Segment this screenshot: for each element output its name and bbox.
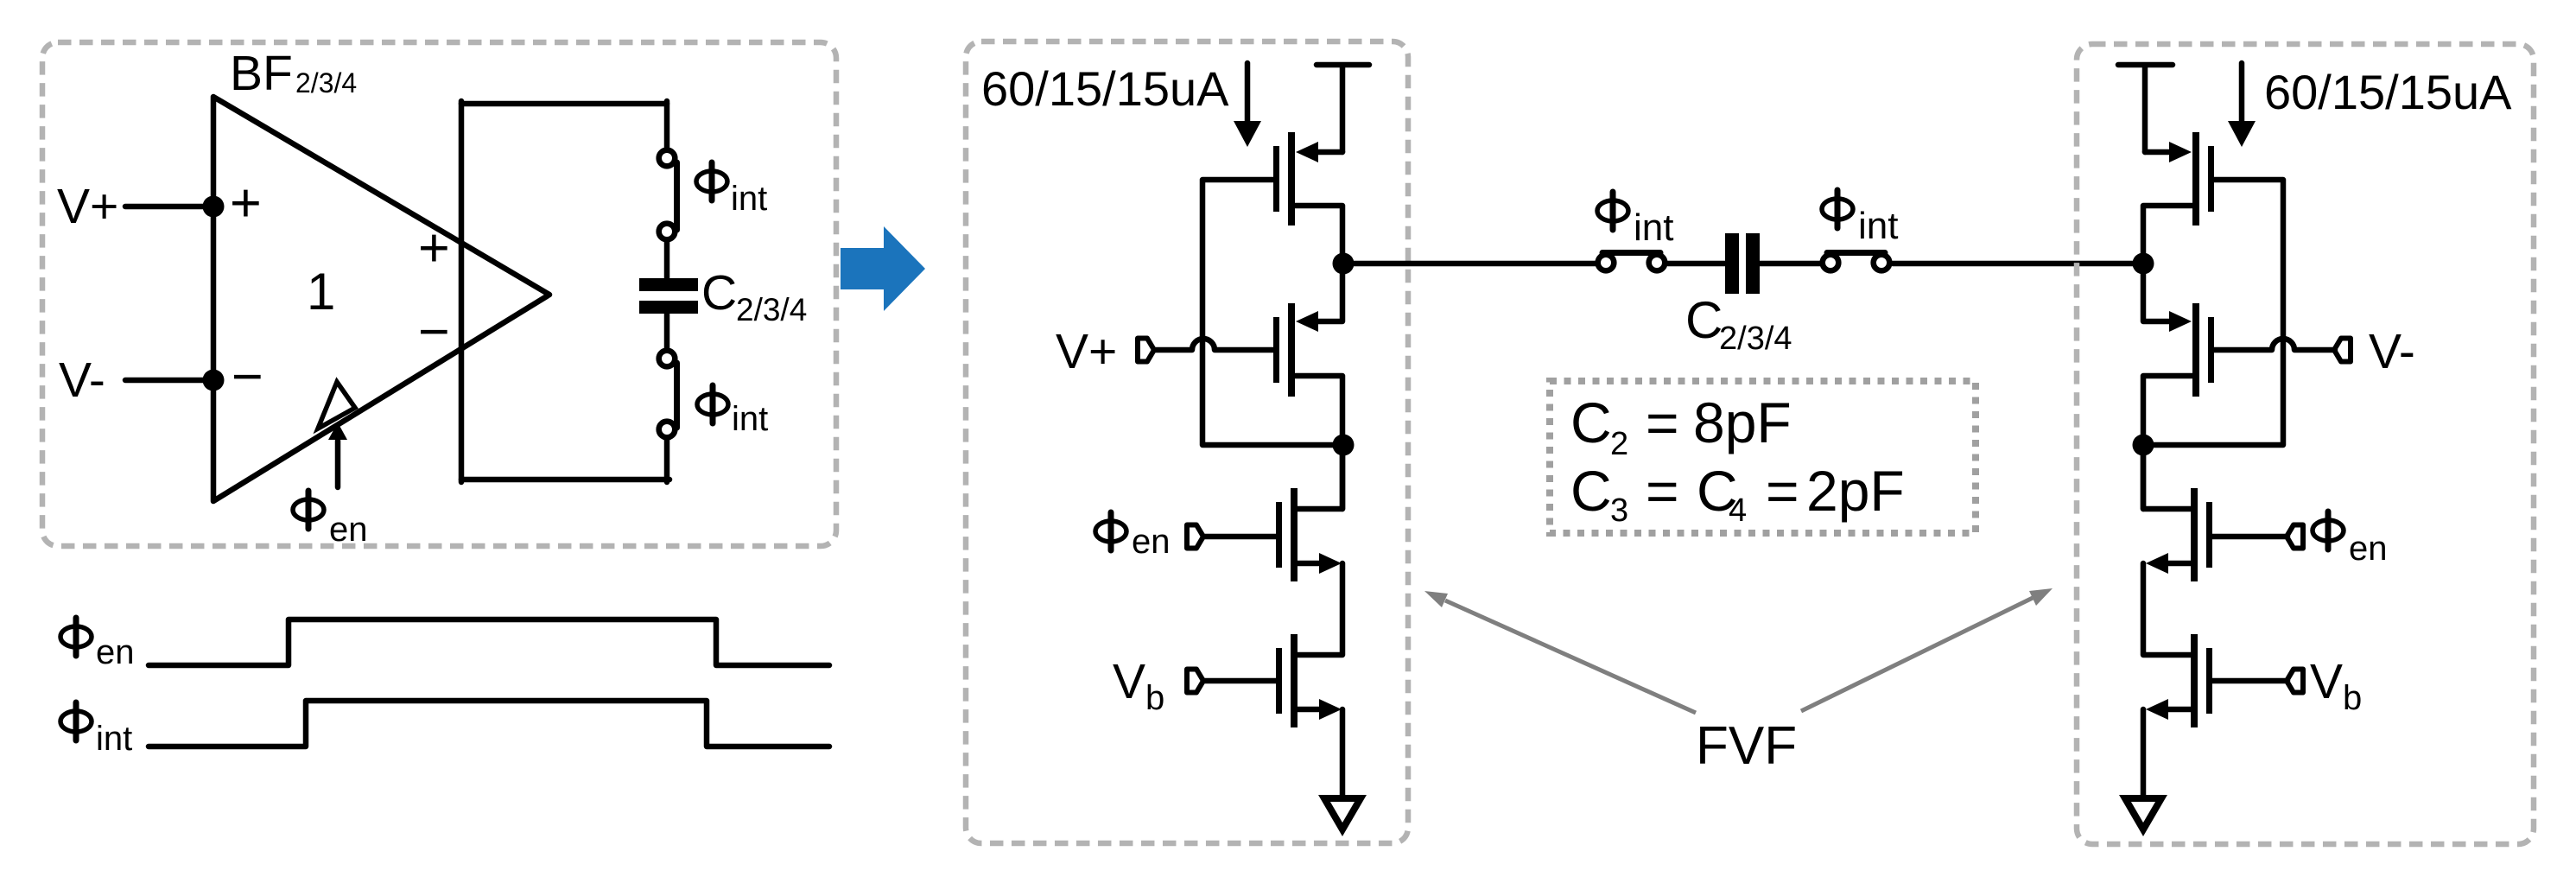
switch S1 Φint (top) — [659, 150, 677, 240]
wire output left FVF to S3 — [1343, 261, 1596, 267]
op-amp gain label 1 — [307, 263, 335, 321]
wire M5 gate feedback — [2151, 180, 2283, 445]
wire C2/3/4 to S2 — [664, 314, 670, 349]
wire M8 source to ground (right) — [2141, 709, 2147, 798]
svg-text:en: en — [329, 511, 368, 549]
wire feedback loop bottom — [461, 477, 669, 483]
wire M1 gate feedback — [1202, 180, 1336, 445]
transistor M5 (PMOS current source, right) — [2143, 132, 2214, 256]
waveform Φint — [149, 701, 829, 746]
svg-text:int: int — [1858, 205, 1898, 247]
svg-text:=: = — [1646, 459, 1679, 523]
transistor M6 (PMOS follower, right) — [2143, 264, 2214, 445]
label BF2/3/4 — [230, 46, 357, 101]
transistor M7 (NMOS enable switch, right) — [2143, 446, 2212, 581]
ground (right) — [2125, 798, 2161, 829]
svg-text:FVF: FVF — [1696, 716, 1797, 776]
svg-text:en: en — [1132, 523, 1171, 561]
blue implementation arrow — [841, 226, 925, 311]
label Φint (timing) — [60, 702, 132, 758]
svg-text:BF: BF — [230, 46, 293, 101]
wire right branch top stub — [664, 101, 670, 149]
VDD rail (right) — [2118, 65, 2173, 152]
svg-text:2/3/4: 2/3/4 — [295, 67, 357, 98]
svg-text:C: C — [701, 265, 737, 321]
node V+ input label — [57, 179, 118, 234]
op-amp BF2/3/4 (unity-gain buffer triangle) — [213, 97, 549, 501]
pin Φen (left) — [1187, 525, 1203, 549]
node output junction (left FVF) — [1333, 253, 1355, 275]
svg-text:V+: V+ — [1056, 324, 1117, 379]
svg-text:−: − — [418, 302, 450, 362]
svg-text:=: = — [1766, 459, 1799, 523]
wire S4 to right FVF — [1893, 261, 2143, 267]
wire Φen pin to M7 gate — [2212, 534, 2287, 540]
wire feedback loop left — [459, 101, 465, 482]
wire coupling cap to S4 — [1760, 261, 1820, 267]
svg-text:V: V — [1113, 654, 1145, 709]
switch S3 Φint (coupling, left) — [1598, 253, 1666, 271]
op-amp output − marker — [418, 302, 450, 362]
label Φen (left FVF) — [1095, 512, 1171, 561]
transistor M1 (PMOS current source, left) — [1273, 132, 1342, 256]
label Vb (left) — [1113, 654, 1164, 717]
label Φen (right FVF) — [2313, 511, 2388, 568]
label Φen (timing) — [60, 618, 135, 671]
svg-text:3: 3 — [1610, 492, 1628, 529]
wire Vb pin to M8 gate — [2212, 678, 2287, 684]
svg-text:60/15/15uA: 60/15/15uA — [981, 61, 1229, 116]
svg-text:b: b — [2343, 679, 2362, 717]
label Φen (enable input) — [293, 491, 368, 549]
op-amp enable triangle symbol — [318, 382, 355, 429]
pin Vb (right) — [2287, 670, 2303, 693]
wire V- pin to M6 gate (hop over feedback) — [2214, 339, 2335, 350]
wire V- input — [125, 378, 213, 384]
svg-text:2: 2 — [1610, 426, 1628, 462]
svg-text:int: int — [1634, 206, 1673, 249]
pin V+ — [1138, 339, 1154, 362]
svg-text:int: int — [732, 400, 768, 438]
svg-text:8pF: 8pF — [1693, 391, 1792, 454]
svg-text:V-: V- — [2369, 324, 2415, 379]
svg-text:C: C — [1570, 391, 1612, 454]
dashed enclosure (left FVF cell) — [966, 41, 1408, 843]
svg-text:+: + — [230, 173, 262, 233]
wire V+ input — [125, 204, 213, 210]
wire S3 to coupling cap — [1668, 261, 1725, 267]
label C2 = 8pF — [1570, 391, 1792, 462]
label Φint (bottom switch) — [697, 385, 768, 438]
svg-text:4: 4 — [1729, 492, 1747, 529]
capacitor C2/3/4 (coupling) — [1725, 233, 1760, 294]
label V- (right FVF input) — [2369, 324, 2415, 379]
bias current arrow (right) — [2228, 63, 2256, 147]
label Φint (S4) — [1822, 190, 1898, 247]
junction M2 drain (left) — [1333, 435, 1355, 456]
label C3 = C4 = 2pF — [1570, 459, 1905, 529]
arrow FVF to right cell — [1801, 588, 2053, 711]
svg-text:int: int — [96, 720, 132, 758]
label C2/3/4 (coupling cap) — [1685, 291, 1792, 357]
wire M6 drain to M7 — [2141, 445, 2147, 509]
wire Φen pin to M3 gate — [1204, 534, 1276, 540]
op-amp − input marker — [232, 346, 263, 407]
junction M6 drain (right) — [2133, 435, 2154, 456]
svg-text:1: 1 — [307, 263, 335, 321]
label FVF — [1696, 716, 1797, 776]
node V- input label — [59, 353, 105, 408]
capacitor C2/3/4 (feedback) — [639, 278, 698, 314]
switch S2 Φint (bottom) — [659, 351, 677, 438]
label V+ (left FVF input) — [1056, 324, 1117, 379]
junction V+ — [203, 196, 225, 218]
svg-text:V+: V+ — [57, 179, 118, 234]
svg-text:2/3/4: 2/3/4 — [1719, 321, 1792, 357]
label 60/15/15uA (left) — [981, 61, 1229, 116]
svg-text:+: + — [418, 218, 450, 278]
op-amp output + marker — [418, 218, 450, 278]
svg-text:60/15/15uA: 60/15/15uA — [2264, 65, 2512, 119]
dashed enclosure (right FVF cell) — [2077, 44, 2534, 844]
pin Vb (left) — [1187, 670, 1203, 693]
junction V- — [203, 370, 225, 391]
svg-text:b: b — [1145, 679, 1164, 717]
label 60/15/15uA (right) — [2264, 65, 2512, 119]
switch S4 Φint (coupling, right) — [1823, 253, 1890, 271]
svg-text:V-: V- — [59, 353, 105, 408]
svg-text:en: en — [96, 633, 135, 671]
wire V+ pin to M2 gate (hop over feedback) — [1156, 339, 1273, 350]
label Φint (S3) — [1597, 192, 1673, 249]
label Vb (right) — [2310, 654, 2362, 717]
transistor M2 (PMOS follower, left) — [1273, 264, 1342, 445]
svg-text:−: − — [232, 346, 263, 407]
svg-text:en: en — [2349, 530, 2388, 568]
wire M2 drain to M3 — [1340, 445, 1346, 509]
pin V- — [2334, 339, 2351, 362]
label Φint (top switch) — [696, 162, 767, 218]
dashed enclosure box (buffer cell, left) — [42, 42, 836, 546]
svg-text:int: int — [731, 180, 767, 218]
bias current arrow (left) — [1234, 63, 1261, 147]
wire Vb pin to M4 gate — [1204, 678, 1276, 684]
wire M4 source to ground (left) — [1340, 709, 1346, 798]
enable arrow — [328, 422, 347, 487]
svg-text:V: V — [2310, 654, 2343, 709]
wire S1 to C2/3/4 — [664, 242, 670, 280]
VDD rail (left) — [1317, 65, 1369, 152]
node output junction (right FVF) — [2133, 253, 2154, 275]
svg-text:C: C — [1685, 291, 1723, 349]
pin Φen (right) — [2287, 525, 2303, 549]
ground (left) — [1324, 798, 1361, 829]
svg-text:2/3/4: 2/3/4 — [736, 292, 807, 327]
waveform Φen — [149, 619, 829, 665]
label C2/3/4 (feedback cap) — [701, 265, 807, 327]
arrow FVF to left cell — [1424, 591, 1696, 713]
wire S2 to loop bottom — [664, 439, 670, 482]
dotted info box — [1550, 381, 1976, 533]
transistor M8 (NMOS bias, right) — [2143, 563, 2212, 727]
transistor M4 (NMOS bias, left) — [1276, 563, 1342, 727]
wire feedback loop top — [461, 101, 667, 107]
svg-text:2pF: 2pF — [1806, 459, 1905, 523]
transistor M3 (NMOS enable switch, left) — [1276, 446, 1342, 581]
svg-text:=: = — [1646, 391, 1679, 454]
svg-text:C: C — [1570, 459, 1612, 523]
op-amp + input marker — [230, 173, 262, 233]
